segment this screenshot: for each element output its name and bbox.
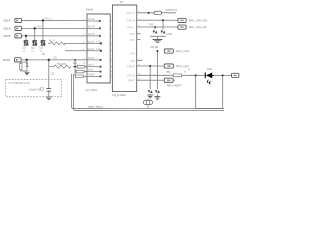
- svg-text:GND2: GND2: [88, 73, 96, 76]
- svg-text:LED: LED: [207, 67, 212, 71]
- svg-text:CAN_H: CAN_H: [126, 19, 134, 22]
- svg-text:D3: D3: [40, 46, 44, 50]
- svg-text:R3: R3: [73, 61, 77, 65]
- svg-text:RFU_CAN_HN: RFU_CAN_HN: [189, 18, 207, 22]
- svg-text:0: 0: [83, 61, 85, 65]
- svg-text:C7 X7R,50V 4.7K: C7 X7R,50V 4.7K: [8, 81, 29, 85]
- svg-text:2S: 2S: [54, 55, 57, 59]
- svg-text:SD1P: SD1P: [88, 18, 95, 21]
- svg-text:R1 0: R1 0: [49, 38, 55, 42]
- svg-text:13D: 13D: [130, 60, 135, 63]
- svg-text:R9: R9: [167, 70, 171, 74]
- svg-text:VCC_P: VCC_P: [127, 12, 135, 15]
- svg-text:U2_0PA4: U2_0PA4: [85, 88, 97, 92]
- svg-text:5V: 5V: [42, 52, 45, 56]
- svg-text:14D: 14D: [130, 52, 135, 55]
- svg-text:D4 D5: D4 D5: [151, 45, 159, 49]
- svg-text:SDA2: SDA2: [88, 57, 95, 60]
- svg-text:C1D: C1D: [130, 33, 135, 36]
- svg-text:CAN_H: CAN_H: [44, 17, 52, 20]
- svg-text:D2Q: D2Q: [167, 32, 173, 36]
- svg-text:SD2P: SD2P: [3, 34, 11, 38]
- svg-text:SHLD_4.7K: SHLD_4.7K: [88, 48, 102, 51]
- svg-text:LED_B: LED_B: [127, 74, 135, 77]
- svg-text:R2 10K: R2 10K: [57, 62, 66, 66]
- svg-text:28 BT: 28 BT: [128, 79, 135, 82]
- svg-text:SD2N_4.7K: SD2N_4.7K: [88, 41, 102, 44]
- svg-text:F2_F1516: F2_F1516: [112, 93, 126, 97]
- svg-text:F1: F1: [120, 0, 124, 4]
- svg-text:SD2N: SD2N: [2, 58, 10, 62]
- svg-text:F1A8: F1A8: [86, 8, 93, 12]
- svg-text:SCL2: SCL2: [88, 64, 95, 67]
- svg-text:RFU_CAN_HP: RFU_CAN_HP: [189, 25, 207, 29]
- svg-text:GND_SHLD: GND_SHLD: [88, 105, 103, 109]
- svg-text:RFU_IN5VT: RFU_IN5VT: [167, 83, 182, 87]
- svg-text:RFU_CAN: RFU_CAN: [176, 49, 189, 53]
- svg-text:TP5: TP5: [149, 23, 154, 27]
- svg-text:0: 0: [184, 70, 186, 74]
- svg-text:SD1P: SD1P: [3, 19, 11, 23]
- svg-text:SD2P: SD2P: [88, 33, 95, 36]
- svg-text:C5: C5: [50, 71, 54, 75]
- svg-text:STB_B: STB_B: [127, 65, 135, 68]
- svg-text:CAN_L: CAN_L: [127, 26, 135, 29]
- svg-text:SD1N: SD1N: [3, 26, 11, 30]
- svg-text:+5VBT,C6: +5VBT,C6: [165, 8, 178, 12]
- svg-text:1A: 1A: [23, 50, 26, 53]
- svg-text:RFU_LED: RFU_LED: [176, 64, 188, 68]
- svg-text:SD1N: SD1N: [88, 25, 95, 28]
- svg-text:D1: D1: [23, 46, 27, 50]
- svg-text:100nF 5%: 100nF 5%: [29, 88, 42, 92]
- svg-text:1A: 1A: [31, 50, 34, 53]
- svg-text:C2D: C2D: [130, 39, 135, 42]
- svg-text:INT2: INT2: [88, 69, 94, 72]
- svg-text:0: 0: [188, 67, 190, 71]
- svg-text:D2: D2: [31, 46, 35, 50]
